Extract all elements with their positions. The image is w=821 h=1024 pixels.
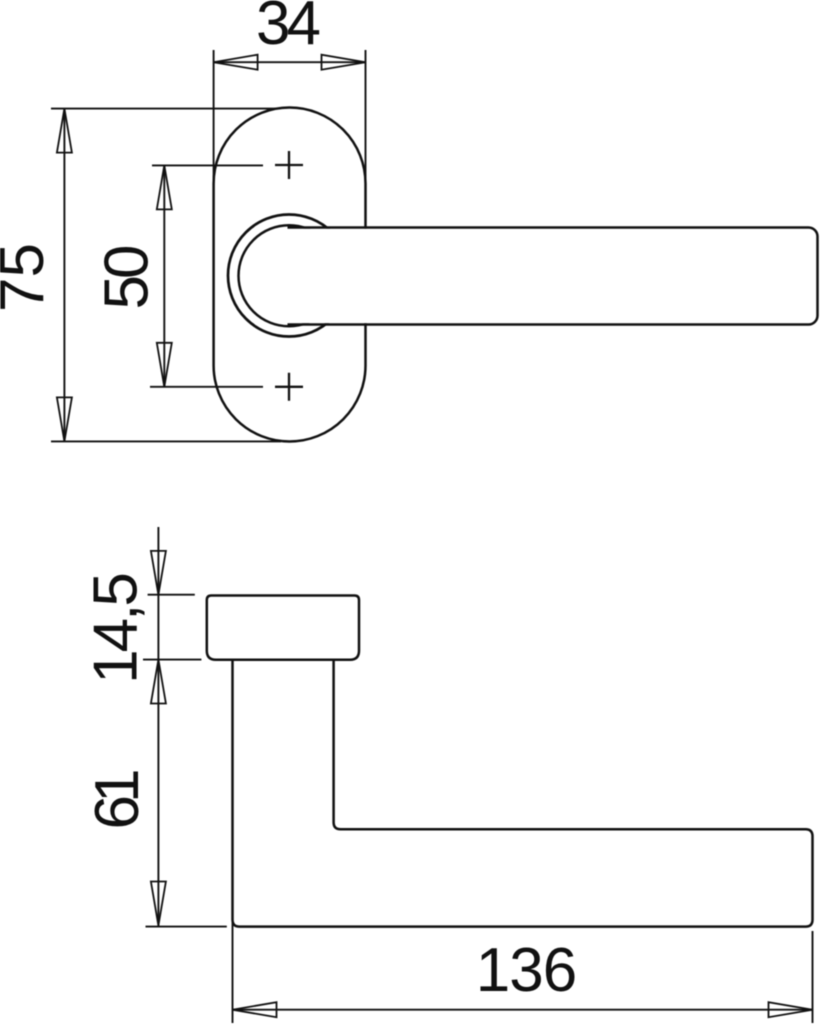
svg-text:50: 50	[92, 246, 161, 309]
lever side profile	[233, 660, 813, 927]
dim 136 arrow right	[769, 1002, 813, 1017]
dim 50 arrow bottom	[157, 343, 172, 387]
svg-text:61: 61	[83, 771, 152, 829]
dim 50 arrow top	[157, 165, 172, 209]
dim 61 arrow down	[151, 882, 166, 926]
lever bar top view outline	[288, 228, 818, 325]
svg-text:136: 136	[476, 936, 576, 1005]
screw mark plus bottom	[275, 373, 303, 401]
dim 75 arrow top	[57, 109, 72, 153]
dim 34 line	[214, 61, 366, 63]
svg-text:75: 75	[0, 243, 57, 312]
lever bar top view white fill	[287, 228, 816, 323]
screw mark plus top	[275, 151, 303, 179]
inner neck circle	[239, 225, 340, 326]
dim 34 extension line right	[365, 50, 367, 228]
dim 61 arrow up	[151, 660, 166, 704]
dim 34 arrow right	[322, 55, 366, 70]
dim 136 ext right	[812, 931, 814, 1023]
outer neck circle	[228, 215, 350, 337]
svg-text:14,5: 14,5	[82, 575, 151, 684]
dim 14,5 arrow down	[151, 551, 166, 595]
dim 75 arrow bottom	[57, 397, 72, 441]
dim 61 ext bottom	[146, 926, 227, 928]
dim 136 line	[233, 1009, 813, 1011]
dim 14,5 / 61 shared line	[157, 527, 159, 926]
dim 75 extension line bottom	[51, 440, 281, 442]
dim 75 extension line top	[51, 108, 280, 110]
oval rosette (top view stadium outline)	[214, 108, 366, 442]
dim 50 extension line top	[152, 164, 263, 166]
dim 50 extension line bottom	[150, 386, 263, 388]
dim 34 extension line left	[213, 50, 215, 185]
dim 136 arrow left	[233, 1002, 277, 1017]
dim 75 line	[63, 109, 65, 442]
dim 14,5 ext top	[148, 594, 195, 596]
dim 34 arrow left	[214, 55, 258, 70]
dim 14,5 ext bottom	[143, 659, 201, 661]
dim 50 line	[163, 165, 165, 386]
rose side view	[207, 596, 359, 660]
svg-text:34: 34	[256, 0, 319, 58]
dim 136 ext left	[232, 918, 234, 1023]
